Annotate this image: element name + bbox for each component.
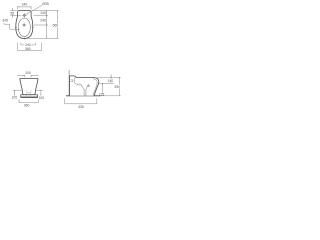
svg-text:390: 390 — [114, 85, 120, 89]
front left small dim line — [13, 90, 15, 95]
front top dim 100: leaders with arrows — [17, 75, 38, 77]
front body outline — [20, 78, 38, 94]
label Ø35 with leader — [26, 5, 42, 14]
plan right: extension line top — [32, 9, 59, 11]
front right small dim line — [40, 90, 42, 95]
plan bottom dim 360 — [18, 43, 42, 51]
dim 95 left: dimension line with arrows — [11, 8, 13, 17]
svg-text:105: 105 — [12, 96, 18, 100]
front base slab — [21, 95, 38, 98]
side inner front line — [93, 79, 97, 96]
label 225 (side seg2) — [99, 93, 105, 96]
svg-text:95: 95 — [10, 11, 14, 15]
svg-text:140: 140 — [40, 11, 46, 15]
side interior bowl line — [75, 78, 81, 84]
plan right: extension line front — [27, 37, 59, 39]
dim 240 top: dimension line — [18, 6, 32, 8]
plan drain cross — [23, 24, 25, 26]
svg-text:360: 360 — [25, 47, 31, 51]
label 140 (side seg1) — [107, 79, 113, 83]
side profile outline — [70, 76, 99, 96]
plan bottom centerline tick — [23, 38, 25, 40]
side overall height dim line 390 — [118, 77, 120, 96]
plan inner bowl oval — [18, 18, 30, 36]
svg-text:140: 140 — [108, 79, 114, 83]
plan tap hole — [23, 14, 25, 16]
side bottom dim 435 — [65, 98, 97, 104]
front bottom dim 360 — [19, 99, 38, 102]
svg-text:Ø35: Ø35 — [42, 2, 49, 6]
dim 240 top: extension hooks — [18, 6, 32, 9]
plan right centerline tick — [32, 26, 34, 28]
side trap funnel — [81, 84, 89, 96]
svg-text:345: 345 — [2, 19, 8, 23]
front center drain outline — [26, 91, 31, 93]
svg-text:435: 435 — [78, 105, 84, 109]
side back inlet detail — [71, 80, 73, 82]
svg-text:360: 360 — [24, 104, 30, 108]
side dim line 225 — [102, 83, 104, 96]
label 140 (plan right seg1) — [40, 11, 46, 14]
svg-text:560: 560 — [53, 24, 59, 28]
plan right: extension line drain level — [34, 24, 48, 26]
svg-text:240: 240 — [40, 18, 46, 22]
label 95 — [10, 11, 15, 15]
front left side-hole ext line — [13, 89, 22, 91]
side right ext line mid — [99, 82, 114, 84]
plan right: extension line tap level — [34, 14, 48, 16]
plan left centerline tick — [15, 26, 17, 28]
wall line — [68, 70, 70, 96]
floor line — [66, 95, 100, 97]
svg-text:100: 100 — [25, 71, 31, 75]
svg-text:240: 240 — [22, 3, 28, 7]
svg-text:105: 105 — [39, 96, 45, 100]
front center drain dim — [24, 94, 35, 96]
side right floor ext — [100, 95, 120, 97]
dim 95 left: extension lines — [10, 11, 21, 16]
side trap hatch ticks — [76, 84, 82, 86]
plan outer outline — [16, 11, 33, 39]
plan bottom dim 240 — [21, 43, 35, 45]
front top dim 100: extension hooks — [25, 75, 31, 78]
side right ext line top — [97, 76, 121, 78]
plan right chain dim line — [45, 10, 47, 38]
label 240 top — [21, 2, 27, 6]
label 390 — [114, 85, 121, 89]
label 560 — [52, 23, 59, 27]
side dim line 140 (small, arrows outside) — [110, 75, 112, 84]
front right side-hole leader arrow — [36, 89, 43, 91]
wall hatching — [68, 70, 69, 96]
front base bottom edge — [21, 96, 38, 98]
svg-text:225: 225 — [99, 92, 105, 96]
plan overall depth dim line 560 — [56, 10, 58, 38]
label 240 (plan right seg2) — [40, 19, 46, 22]
